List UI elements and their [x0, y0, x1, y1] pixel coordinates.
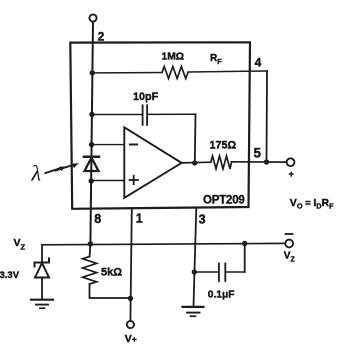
terminal pin 2 (top input) [89, 14, 96, 21]
node output junction [192, 160, 197, 165]
svg-text:λ: λ [31, 161, 42, 186]
wire cap 0.1uF left [194, 271, 218, 273]
node pin4 output junction [264, 159, 269, 164]
svg-text:OPT209: OPT209 [203, 195, 245, 207]
wire pin3 down to ground [194, 208, 197, 307]
op-amp minus sign [130, 144, 137, 146]
photodiode D1 triangle [85, 158, 99, 171]
wire VZ rail [42, 243, 285, 244]
IC box OPT209 outline [70, 42, 250, 209]
wire rail to 5k resistor [89, 244, 92, 257]
node V+ junction [128, 296, 133, 301]
resistor 175 zigzag [211, 156, 232, 169]
svg-text:VZ: VZ [284, 251, 296, 264]
zener diode bar [35, 259, 50, 267]
wire cap right [147, 113, 195, 115]
overline minus [286, 233, 293, 235]
capacitor 10pF plates [142, 105, 144, 125]
node rail cap junction [242, 241, 247, 246]
op-amp U1 triangle [124, 127, 181, 198]
terminal V+ [127, 321, 134, 328]
node inverting input junction [89, 142, 94, 147]
svg-text:3: 3 [199, 212, 206, 226]
svg-text:8: 8 [94, 212, 101, 226]
wire cap up to rail [244, 244, 246, 273]
node cap junction [89, 112, 94, 117]
svg-text:RF: RF [210, 53, 222, 66]
svg-text:5kΩ: 5kΩ [101, 266, 122, 278]
svg-text:3.3V: 3.3V [0, 270, 20, 281]
wire output to resistor [182, 161, 211, 164]
wire feedback right to pin 4 [188, 71, 267, 72]
light arrow 1 [46, 168, 62, 173]
capacitor 0.1uF plates [218, 264, 220, 282]
op-amp plus sign [130, 179, 139, 181]
wire noninverting input [91, 180, 124, 182]
svg-text:10pF: 10pF [133, 91, 159, 103]
wire cap 0.1uF right [226, 271, 245, 273]
terminal output plus [287, 158, 295, 166]
light arrow 2 [56, 165, 74, 171]
ground zener [31, 299, 53, 301]
svg-text:0.1μF: 0.1μF [208, 289, 235, 300]
wire inverting input [92, 144, 125, 146]
ground pin3 [183, 306, 204, 308]
wire cap left [92, 114, 142, 116]
zener diode triangle [35, 263, 49, 278]
wire zener bottom [41, 278, 43, 300]
wire resistor to output terminal [232, 161, 287, 163]
svg-text:2: 2 [98, 29, 105, 43]
node feedback junction [90, 70, 95, 75]
svg-text:1MΩ: 1MΩ [162, 51, 185, 62]
resistor 5k zigzag [83, 257, 97, 285]
svg-text:175Ω: 175Ω [210, 139, 237, 151]
wire feedback left [92, 72, 162, 74]
svg-text:5: 5 [254, 146, 262, 161]
svg-text:1: 1 [136, 212, 143, 226]
node noninverting input junction [89, 178, 94, 183]
svg-text:VO = IDRF: VO = IDRF [290, 197, 334, 211]
svg-text:V+: V+ [125, 333, 137, 345]
resistor RF 1M zigzag [162, 67, 188, 79]
wire zener top [41, 245, 43, 263]
wire pin4 down to output node [266, 71, 269, 162]
wire cap down to output node [194, 114, 197, 163]
node cap left junction [192, 269, 197, 274]
svg-text:4: 4 [255, 55, 262, 69]
svg-text:+: + [289, 169, 294, 179]
terminal VZ minus [285, 240, 293, 248]
wire main vertical (pin2 to rail) [90, 22, 93, 244]
wire pin1 down to V+ terminal [130, 209, 131, 321]
node rail pin8 junction [88, 241, 93, 246]
photodiode D1 cathode bar [84, 156, 99, 159]
wire 5k bottom to V+ node [90, 284, 131, 298]
svg-text:VZ: VZ [14, 237, 26, 252]
